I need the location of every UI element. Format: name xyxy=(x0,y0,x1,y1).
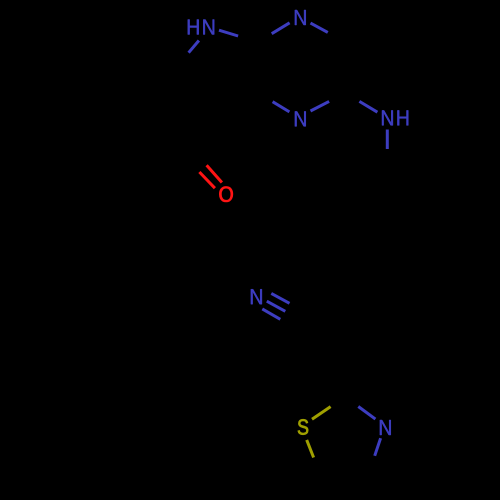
ketone O label xyxy=(219,187,232,202)
wire N5-C7a (blue half) xyxy=(219,30,238,36)
wire C#N triple bond line 3 (blue half) xyxy=(262,309,280,319)
pyrazine N4 label xyxy=(295,111,306,126)
amino NH label - H glyph xyxy=(397,110,408,125)
wire C2-N3 (blue half) xyxy=(358,407,375,420)
wire S-C5 (yellow half) xyxy=(307,440,314,458)
pyrrole NH label - N glyph xyxy=(203,20,214,35)
wire C2-NH (blue half) xyxy=(359,101,377,112)
wire N4-C2 (blue half) xyxy=(311,101,330,111)
wire NH-CH2 (blue half) xyxy=(386,130,389,150)
pyrrole NH label - H glyph xyxy=(188,20,199,35)
nitrile N label xyxy=(251,289,262,304)
wire C#N triple bond line 1 (blue half) xyxy=(271,293,289,303)
wire N1-C3 (blue half) xyxy=(311,23,328,32)
wire C=O double bond line A (red half) xyxy=(207,165,222,182)
wire C=O double bond line B (red half) xyxy=(199,172,215,188)
wire N5-C6 (blue half) xyxy=(189,41,199,53)
amino NH label - N glyph xyxy=(382,110,393,125)
thiazole S label xyxy=(298,419,308,434)
wire N3-C4 (blue half) xyxy=(375,438,381,456)
pyrazine N1 label xyxy=(295,10,306,25)
wire C7a-N1 (blue half) xyxy=(272,23,290,34)
thiazole N3 label xyxy=(380,420,391,435)
wire S-C2 (yellow half) xyxy=(312,407,331,420)
wire C4a-N4 (blue half) xyxy=(273,102,290,112)
wire C#N triple bond line 2 (blue half) xyxy=(267,301,286,311)
